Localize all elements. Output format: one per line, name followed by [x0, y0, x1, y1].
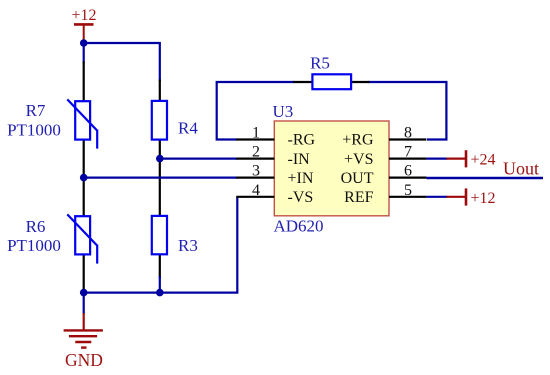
power +12 right symbol — [446, 188, 495, 207]
svg-text:-IN: -IN — [288, 151, 311, 168]
svg-text:+12: +12 — [71, 7, 96, 24]
svg-text:PT1000: PT1000 — [7, 236, 61, 255]
op-amp U3 AD620 body — [274, 121, 389, 216]
svg-text:PT1000: PT1000 — [7, 121, 61, 140]
pin black R5 right — [351, 81, 370, 83]
svg-text:GND: GND — [65, 350, 103, 370]
wire +12 node down to R7 — [83, 43, 85, 63]
pin stub 8 — [389, 138, 426, 140]
ground symbol GND — [64, 313, 103, 370]
svg-text:+12: +12 — [471, 190, 496, 207]
power +24 symbol — [446, 150, 495, 169]
svg-text:U3: U3 — [273, 102, 294, 121]
resistor R6 PT1000 thermistor — [67, 214, 97, 263]
pin black R4 bottom through node to R3 top — [159, 139, 161, 217]
svg-text:REF: REF — [344, 189, 373, 206]
svg-text:R4: R4 — [178, 119, 198, 138]
pin black R6 bottom — [83, 254, 85, 290]
pin stub 5 — [389, 196, 426, 198]
svg-text:OUT: OUT — [341, 170, 374, 187]
wire +IN from left node to chip pin 3 — [84, 177, 238, 179]
pin stub 1 — [236, 138, 274, 140]
svg-text:4: 4 — [252, 182, 260, 199]
resistor R4 — [152, 101, 167, 140]
pin stub 2 — [236, 158, 274, 160]
svg-text:2: 2 — [252, 144, 260, 161]
pin stub 7 — [389, 158, 426, 160]
svg-text:Uout: Uout — [503, 159, 539, 179]
junction left mid node (+IN) — [80, 174, 88, 182]
wire pin 6 output Uout — [426, 177, 543, 179]
svg-text:R5: R5 — [310, 54, 330, 73]
wire -IN from R4/R3 node to chip pin 2 — [160, 158, 238, 160]
junction +12 node — [80, 39, 88, 47]
pin black R7 top — [83, 62, 85, 103]
wire feedback left: pin 1 up to top rail — [217, 82, 294, 140]
svg-text:R7: R7 — [26, 101, 46, 120]
wire top-left rail from +12 node to R4 branch — [84, 43, 160, 81]
resistor R3 — [152, 216, 167, 254]
svg-text:+RG: +RG — [342, 132, 374, 149]
svg-text:R3: R3 — [178, 236, 198, 255]
pin stub 4 — [236, 196, 274, 198]
svg-text:AD620: AD620 — [274, 217, 324, 236]
svg-text:-RG: -RG — [288, 132, 316, 149]
resistor R7 PT1000 thermistor — [67, 99, 97, 148]
svg-text:+24: +24 — [471, 152, 496, 169]
svg-text:3: 3 — [252, 163, 260, 180]
svg-text:7: 7 — [404, 144, 412, 161]
pin black R5 left — [293, 81, 313, 83]
resistor R5 — [312, 74, 351, 89]
svg-text:+IN: +IN — [288, 170, 314, 187]
wire -VS pin 4 down to bottom rail — [83, 197, 238, 293]
wire R3 bottom to rail — [159, 276, 161, 293]
junction R4/R3 node (-IN) — [156, 155, 164, 163]
svg-text:1: 1 — [252, 125, 260, 142]
pin black R4 top — [159, 80, 161, 103]
pin stub 6 — [389, 177, 426, 179]
power +12 top symbol — [71, 7, 96, 44]
junction bottom-left node — [80, 289, 88, 297]
svg-text:-VS: -VS — [288, 189, 314, 206]
wire bottom-left node down toward GND — [83, 293, 85, 314]
pin black R3 bottom — [159, 254, 161, 278]
pin black R7 bottom through mid node to R6 top — [83, 139, 85, 217]
svg-text:R6: R6 — [26, 217, 46, 236]
svg-text:5: 5 — [404, 182, 412, 199]
pin stub 3 — [236, 177, 274, 179]
junction R3 bottom rail node — [156, 289, 164, 297]
wire pin 5 to +12 — [426, 196, 447, 198]
svg-text:8: 8 — [404, 125, 412, 142]
svg-text:+VS: +VS — [344, 151, 373, 168]
wire feedback right: R5 to pin 8 — [368, 82, 446, 140]
svg-text:6: 6 — [404, 163, 412, 180]
wire pin 7 to +24 — [426, 158, 447, 160]
